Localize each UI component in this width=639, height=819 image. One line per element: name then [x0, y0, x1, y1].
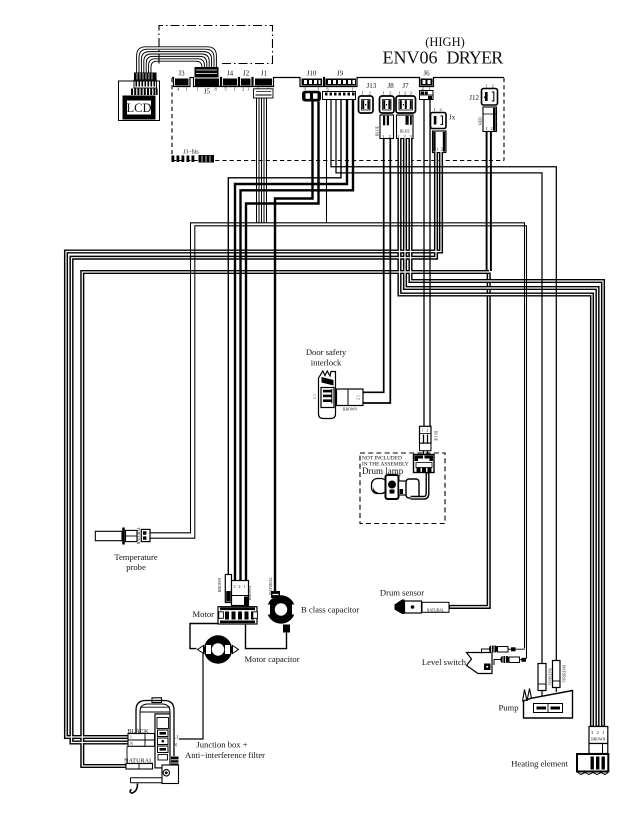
- svg-text:1: 1: [422, 429, 424, 433]
- svg-text:2: 2: [427, 429, 429, 433]
- svg-text:2: 2: [239, 585, 241, 589]
- svg-text:NATURAL: NATURAL: [562, 665, 566, 683]
- svg-text:J10: J10: [307, 70, 317, 78]
- svg-text:Pump: Pump: [498, 703, 518, 713]
- svg-text:J9: J9: [337, 70, 344, 78]
- svg-text:J6: J6: [423, 70, 430, 78]
- svg-text:BLUE: BLUE: [434, 431, 438, 442]
- svg-text:Motor: Motor: [193, 609, 215, 619]
- svg-text:L1: L1: [174, 736, 180, 741]
- svg-text:1: 1: [130, 736, 132, 740]
- svg-text:J3: J3: [178, 70, 185, 78]
- svg-text:RED: RED: [479, 117, 483, 125]
- svg-text:Junction box +: Junction box +: [196, 740, 247, 750]
- svg-text:J8: J8: [388, 82, 395, 90]
- svg-text:J4: J4: [227, 70, 234, 78]
- svg-text:BROWN: BROWN: [591, 738, 605, 742]
- svg-text:probe: probe: [126, 562, 146, 572]
- svg-text:Motor capacitor: Motor capacitor: [244, 654, 299, 664]
- svg-text:Jx: Jx: [449, 114, 456, 122]
- svg-text:BROWN: BROWN: [218, 578, 222, 592]
- svg-text:BLUE: BLUE: [400, 130, 411, 134]
- svg-text:NATURAL: NATURAL: [124, 758, 153, 765]
- svg-text:NATURAL: NATURAL: [548, 668, 552, 686]
- svg-text:B class capacitor: B class capacitor: [301, 605, 359, 615]
- svg-text:2 1: 2 1: [356, 395, 360, 400]
- svg-text:J2: J2: [243, 70, 250, 78]
- svg-text:interlock: interlock: [311, 358, 342, 368]
- svg-text:NATURAL: NATURAL: [427, 608, 445, 612]
- svg-text:J7: J7: [402, 82, 409, 90]
- svg-text:BLACK: BLACK: [128, 728, 150, 735]
- svg-text:1: 1: [244, 585, 246, 589]
- svg-text:J3−bis: J3−bis: [183, 150, 199, 156]
- svg-text:ENV06: ENV06: [383, 47, 438, 67]
- svg-text:2 1: 2 1: [313, 394, 317, 399]
- svg-text:Door safety: Door safety: [306, 347, 347, 357]
- svg-text:BLUE: BLUE: [376, 125, 380, 136]
- svg-text:LCD: LCD: [127, 101, 152, 115]
- svg-text:Temperature: Temperature: [114, 552, 157, 562]
- svg-text:J5: J5: [204, 88, 211, 96]
- svg-text:Heating element: Heating element: [511, 759, 568, 769]
- svg-text:DRYER: DRYER: [447, 47, 504, 67]
- svg-text:Drum sensor: Drum sensor: [380, 588, 424, 598]
- svg-text:J13: J13: [367, 82, 377, 90]
- svg-text:BROWN: BROWN: [248, 586, 252, 600]
- svg-text:BROWN: BROWN: [343, 408, 357, 412]
- svg-text:3: 3: [234, 585, 236, 589]
- svg-text:J1: J1: [261, 70, 268, 78]
- svg-text:NATURAL: NATURAL: [137, 526, 141, 544]
- svg-text:N: N: [174, 744, 178, 749]
- svg-text:N: N: [130, 742, 133, 746]
- svg-text:Level switch: Level switch: [422, 657, 467, 667]
- svg-text:Anti−interference filter: Anti−interference filter: [185, 750, 265, 760]
- svg-text:J12: J12: [469, 94, 479, 102]
